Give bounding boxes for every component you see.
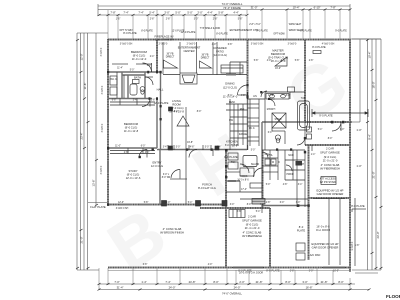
- svg-text:1'-4": 1'-4": [311, 154, 316, 156]
- svg-text:17'-4": 17'-4": [241, 189, 247, 191]
- svg-text:12'-0 PLATE: 12'-0 PLATE: [172, 30, 185, 33]
- svg-text:11'-0 x 12'-0: 11'-0 x 12'-0: [132, 57, 147, 61]
- svg-text:7'-4": 7'-4": [165, 280, 170, 284]
- svg-text:12'-0 CLG: 12'-0 CLG: [151, 164, 163, 168]
- svg-text:(12'-0 CLG): (12'-0 CLG): [223, 86, 237, 90]
- svg-text:2'-0": 2'-0": [239, 280, 244, 284]
- svg-text:2'-4": 2'-4": [147, 65, 152, 67]
- svg-text:DIRECT: DIRECT: [166, 57, 175, 59]
- svg-text:2'-8" x 5'-0": 2'-8" x 5'-0": [249, 24, 261, 26]
- svg-text:3'-0x5'-0: 3'-0x5'-0: [102, 85, 104, 94]
- svg-text:11'-0": 11'-0": [115, 146, 121, 148]
- svg-text:W/ BROOM FINISH: W/ BROOM FINISH: [160, 231, 184, 235]
- svg-text:3'-0": 3'-0": [194, 19, 199, 21]
- svg-text:2'-8": 2'-8": [290, 271, 295, 273]
- svg-text:3'-0": 3'-0": [309, 271, 314, 273]
- svg-text:PATIO: PATIO: [216, 50, 224, 54]
- svg-text:2'-8": 2'-8": [309, 60, 314, 62]
- svg-text:3'-0": 3'-0": [340, 129, 345, 131]
- svg-text:16'-0 x 8'-0: 16'-0 x 8'-0: [316, 225, 330, 229]
- svg-text:(9'-0 TRAY CLG): (9'-0 TRAY CLG): [268, 56, 288, 60]
- svg-text:24'-8": 24'-8": [189, 280, 196, 284]
- svg-text:8'-0": 8'-0": [328, 138, 333, 140]
- svg-text:UTIL: UTIL: [265, 154, 271, 156]
- svg-text:21'-4 x 21'-0: 21'-4 x 21'-0: [245, 226, 260, 230]
- svg-text:BEDROOM: BEDROOM: [131, 50, 147, 54]
- svg-text:ENTRY: ENTRY: [152, 161, 161, 165]
- svg-text:EQUIPPED W/ 1/2 HP: EQUIPPED W/ 1/2 HP: [317, 189, 344, 193]
- svg-text:3'-4": 3'-4": [217, 147, 222, 149]
- svg-text:1'-0": 1'-0": [356, 128, 361, 132]
- svg-text:4'-4": 4'-4": [207, 11, 212, 15]
- svg-text:BEDROOM: BEDROOM: [271, 52, 286, 56]
- svg-text:4'-0x5'-0 SH: 4'-0x5'-0 SH: [322, 44, 335, 46]
- svg-text:BEDROOM: BEDROOM: [124, 122, 139, 126]
- svg-text:5'-8": 5'-8": [144, 202, 149, 204]
- svg-text:OPT TV ABV: OPT TV ABV: [119, 29, 133, 32]
- svg-text:REF: REF: [240, 109, 245, 111]
- svg-text:8'-0" DR: 8'-0" DR: [162, 177, 171, 179]
- svg-text:4'-0": 4'-0": [208, 264, 213, 266]
- svg-text:24'-0": 24'-0": [169, 286, 176, 290]
- svg-text:12'-0": 12'-0": [80, 54, 84, 61]
- svg-text:ENTERTAINMENT CTR: ENTERTAINMENT CTR: [230, 28, 259, 32]
- svg-text:12'-0": 12'-0": [118, 202, 124, 204]
- svg-text:8'-0: 8'-0: [299, 225, 304, 229]
- svg-text:DINING: DINING: [225, 82, 234, 86]
- svg-text:21'-0 x 21'-0: 21'-0 x 21'-0: [323, 159, 338, 163]
- svg-text:DESK: DESK: [229, 102, 236, 104]
- svg-text:4'-0": 4'-0": [260, 204, 265, 206]
- svg-text:7'-8": 7'-8": [110, 11, 115, 15]
- svg-text:ROOM: ROOM: [172, 103, 181, 107]
- svg-text:6'-8": 6'-8": [112, 100, 117, 102]
- svg-text:WDW SEAT: WDW SEAT: [289, 23, 302, 26]
- svg-text:A/C PAD: A/C PAD: [310, 253, 321, 257]
- svg-text:(12'-0 CLG): (12'-0 CLG): [170, 106, 184, 110]
- svg-text:2'-4": 2'-4": [150, 56, 155, 58]
- svg-text:23'-0": 23'-0": [376, 232, 380, 239]
- svg-text:OPT WDW: OPT WDW: [273, 34, 285, 36]
- svg-text:4'-0": 4'-0": [212, 44, 217, 46]
- svg-text:31'-4": 31'-4": [117, 286, 124, 290]
- svg-text:(9'-0 CLG): (9'-0 CLG): [324, 155, 337, 159]
- svg-text:10'-4": 10'-4": [293, 6, 300, 10]
- svg-text:ISLAND: ISLAND: [251, 163, 260, 166]
- svg-text:STUDY: STUDY: [128, 169, 137, 173]
- svg-text:9'-0x8'-0: 9'-0x8'-0: [352, 241, 354, 250]
- svg-text:3'-0": 3'-0": [296, 202, 301, 204]
- svg-text:11'-0 x 11'-8: 11'-0 x 11'-8: [124, 129, 139, 133]
- svg-text:1'-0": 1'-0": [356, 164, 361, 168]
- svg-text:(9'-0 CLG): (9'-0 CLG): [133, 54, 146, 58]
- svg-text:8'-0": 8'-0": [174, 111, 179, 113]
- svg-text:6'-8": 6'-8": [228, 44, 233, 46]
- svg-text:12'-0 PLATE: 12'-0 PLATE: [154, 101, 169, 105]
- svg-text:7'-0": 7'-0": [114, 280, 119, 284]
- svg-text:3'-8": 3'-8": [151, 100, 156, 102]
- svg-text:5'-0": 5'-0": [205, 147, 210, 149]
- svg-text:6'-0": 6'-0": [280, 202, 285, 204]
- svg-text:6'-0": 6'-0": [166, 202, 171, 204]
- svg-text:5'-8": 5'-8": [254, 60, 259, 62]
- svg-text:5'-4": 5'-4": [318, 129, 323, 131]
- svg-text:12'-8": 12'-8": [268, 95, 274, 97]
- svg-text:23'-4": 23'-4": [80, 133, 84, 140]
- svg-text:4" CONC SLAB: 4" CONC SLAB: [321, 163, 340, 167]
- svg-text:8'-0 PLATE: 8'-0 PLATE: [312, 45, 326, 49]
- svg-text:(12'-0 CLG): (12'-0 CLG): [213, 53, 227, 57]
- svg-text:3'-0" x: 3'-0" x: [163, 174, 170, 176]
- svg-text:W/ PD STAIR: W/ PD STAIR: [320, 180, 336, 184]
- svg-text:1'-6": 1'-6": [116, 19, 121, 21]
- svg-text:6'-8": 6'-8": [281, 60, 286, 62]
- svg-text:4'-0": 4'-0": [267, 60, 272, 62]
- svg-text:74'-0" FRAME: 74'-0" FRAME: [223, 6, 241, 10]
- svg-text:3'-0x5'-0 SH: 3'-0x5'-0 SH: [251, 44, 264, 46]
- svg-text:36" FB: 36" FB: [202, 55, 209, 57]
- svg-text:5'-0": 5'-0": [266, 184, 271, 186]
- svg-text:8'-0 PLATE: 8'-0 PLATE: [216, 33, 228, 36]
- svg-text:3'-0x5'-0: 3'-0x5'-0: [288, 44, 297, 46]
- svg-text:GAR DOOR OPENER: GAR DOOR OPENER: [312, 246, 339, 250]
- svg-text:SHWR: SHWR: [274, 119, 281, 121]
- svg-text:W.I.C.: W.I.C.: [110, 77, 118, 81]
- svg-text:12'-0 x 13'-6: 12'-0 x 13'-6: [126, 176, 141, 180]
- svg-text:24'-0": 24'-0": [234, 286, 241, 290]
- svg-text:5'-4": 5'-4": [228, 95, 233, 97]
- svg-text:RANGE: RANGE: [239, 133, 248, 136]
- svg-text:4'-8": 4'-8": [241, 95, 246, 97]
- svg-text:16'-0": 16'-0": [333, 271, 339, 273]
- svg-text:16'-0": 16'-0": [372, 82, 376, 89]
- svg-text:7'-4": 7'-4": [138, 11, 143, 15]
- svg-text:PAN: PAN: [231, 161, 236, 164]
- svg-text:4" CONC SLAB: 4" CONC SLAB: [243, 231, 262, 235]
- svg-text:6'-0": 6'-0": [141, 146, 146, 148]
- svg-text:1'-8": 1'-8": [355, 245, 360, 247]
- svg-text:9'-0 PLATE: 9'-0 PLATE: [256, 30, 268, 33]
- svg-text:O.H. DOOR: O.H. DOOR: [316, 228, 330, 232]
- svg-text:NOOK: NOOK: [241, 176, 248, 178]
- svg-text:9'-0 PLATE: 9'-0 PLATE: [319, 114, 333, 118]
- svg-text:16'-8": 16'-8": [306, 286, 313, 290]
- svg-text:2'-8": 2'-8": [213, 19, 218, 21]
- svg-text:1'-4": 1'-4": [141, 280, 146, 284]
- svg-text:MASTER: MASTER: [272, 49, 283, 53]
- svg-text:6'-10": 6'-10": [314, 6, 321, 10]
- svg-text:2'-8": 2'-8": [266, 202, 271, 204]
- svg-text:TUB: TUB: [301, 98, 306, 100]
- svg-text:5'-4": 5'-4": [149, 11, 154, 15]
- svg-text:10'-0 x 8'-0: 10'-0 x 8'-0: [237, 180, 249, 182]
- svg-text:FLAT PLATE: FLAT PLATE: [90, 205, 106, 209]
- svg-text:21'-0": 21'-0": [372, 172, 376, 179]
- svg-text:8'-0": 8'-0": [247, 204, 252, 206]
- svg-text:9'-4": 9'-4": [368, 134, 372, 139]
- svg-text:3'-4": 3'-4": [298, 184, 303, 186]
- svg-text:36" FB: 36" FB: [167, 54, 174, 56]
- svg-text:ATT ACCESS: ATT ACCESS: [320, 177, 337, 181]
- svg-text:(9'-0 CLG): (9'-0 CLG): [127, 173, 140, 177]
- svg-text:21'-8": 21'-8": [256, 280, 263, 284]
- svg-text:BATH: BATH: [134, 76, 141, 80]
- svg-text:11'-4": 11'-4": [117, 68, 123, 70]
- svg-text:3'-0x5'-0 SH: 3'-0x5'-0 SH: [120, 44, 133, 46]
- svg-text:7'-4": 7'-4": [123, 11, 128, 15]
- svg-text:DIRECT: DIRECT: [201, 58, 210, 60]
- svg-text:8'-0 PLATE: 8'-0 PLATE: [351, 204, 365, 208]
- svg-text:16'-0 x 8'-0 O.H. DOOR: 16'-0 x 8'-0 O.H. DOOR: [239, 273, 263, 275]
- svg-text:8'-0 FLAT CLG: 8'-0 FLAT CLG: [198, 186, 216, 190]
- svg-text:5'-8": 5'-8": [295, 60, 300, 62]
- svg-text:8'-0 PLATE: 8'-0 PLATE: [141, 30, 153, 33]
- svg-text:8'-0": 8'-0": [213, 280, 218, 284]
- svg-text:9'-0 PLATE: 9'-0 PLATE: [335, 30, 347, 33]
- svg-text:(9'-0 CLG): (9'-0 CLG): [125, 126, 138, 130]
- svg-text:5'-0": 5'-0": [251, 150, 256, 152]
- svg-text:2 CAR: 2 CAR: [248, 215, 256, 219]
- svg-text:21'-8": 21'-8": [321, 280, 328, 284]
- svg-text:LIVING: LIVING: [172, 99, 181, 103]
- svg-text:11'-8": 11'-8": [83, 83, 87, 90]
- svg-text:21'-0": 21'-0": [80, 237, 84, 244]
- svg-text:W/ FIBERMESH: W/ FIBERMESH: [320, 167, 340, 171]
- svg-text:8'-0": 8'-0": [197, 111, 202, 113]
- svg-text:3'-0": 3'-0": [230, 204, 235, 206]
- svg-text:5'-8": 5'-8": [238, 19, 243, 21]
- svg-text:PORCH: PORCH: [202, 183, 212, 187]
- svg-text:ENTERTAINMENT: ENTERTAINMENT: [178, 46, 201, 50]
- svg-text:CENTER: CENTER: [183, 49, 194, 53]
- svg-text:GAS STARTER: GAS STARTER: [155, 38, 174, 42]
- svg-text:3'-0x5'-0: 3'-0x5'-0: [102, 123, 104, 132]
- svg-text:5'-0": 5'-0": [130, 70, 135, 72]
- svg-text:5'-0": 5'-0": [187, 11, 192, 15]
- svg-text:19'-8": 19'-8": [187, 142, 193, 144]
- svg-text:4'-8": 4'-8": [190, 147, 195, 149]
- svg-text:3'-0": 3'-0": [164, 11, 169, 15]
- svg-text:PLATE: PLATE: [297, 229, 306, 233]
- svg-text:MUD: MUD: [288, 155, 294, 157]
- svg-text:GAR DOOR OPENER: GAR DOOR OPENER: [317, 192, 344, 196]
- svg-text:3'-4": 3'-4": [163, 147, 168, 149]
- svg-text:3'-0x5'-0: 3'-0x5'-0: [101, 47, 103, 56]
- svg-text:2'-0x5'-0: 2'-0x5'-0: [159, 44, 168, 46]
- svg-text:5'-4": 5'-4": [256, 211, 261, 213]
- svg-text:SPLIT GARAGE: SPLIT GARAGE: [320, 151, 340, 155]
- svg-text:2'-8": 2'-8": [150, 19, 155, 21]
- svg-text:31'-0": 31'-0": [251, 6, 258, 10]
- svg-text:5'-0": 5'-0": [175, 11, 180, 15]
- svg-text:8'-0 x 5'-0 ISL: 8'-0 x 5'-0 ISL: [225, 145, 240, 147]
- svg-text:6'-0": 6'-0": [268, 132, 273, 134]
- svg-text:3'-0x5'-0 SH: 3'-0x5'-0 SH: [116, 208, 129, 210]
- svg-text:EQUIPPED W/ 1/2 HP: EQUIPPED W/ 1/2 HP: [312, 242, 339, 246]
- svg-text:8'-0 PLATE: 8'-0 PLATE: [224, 155, 238, 159]
- svg-text:5'-0": 5'-0": [176, 147, 181, 149]
- svg-text:(9'-0 CLG): (9'-0 CLG): [246, 223, 259, 227]
- svg-text:3'-0": 3'-0": [197, 11, 202, 15]
- svg-text:LIN: LIN: [253, 96, 257, 98]
- svg-text:PWDR: PWDR: [286, 174, 293, 176]
- svg-text:13'-6": 13'-6": [92, 180, 96, 187]
- svg-text:2'-0x5'-0: 2'-0x5'-0: [187, 44, 196, 46]
- svg-text:HALL: HALL: [157, 88, 164, 92]
- svg-text:74'-0" OVERALL: 74'-0" OVERALL: [222, 291, 242, 295]
- svg-text:3'-0": 3'-0": [302, 280, 307, 284]
- svg-text:TYP SHELF & ROD: TYP SHELF & ROD: [200, 28, 221, 30]
- svg-text:2'-8": 2'-8": [166, 19, 171, 21]
- svg-text:2 CAR: 2 CAR: [326, 147, 334, 151]
- svg-text:8'-0": 8'-0": [285, 280, 290, 284]
- svg-text:8'-0": 8'-0": [338, 280, 343, 284]
- svg-text:KITCHEN: KITCHEN: [226, 140, 238, 144]
- svg-text:8'-0 PLATE: 8'-0 PLATE: [300, 30, 312, 33]
- svg-text:5'-8": 5'-8": [218, 11, 223, 15]
- svg-text:W.I.C.: W.I.C.: [249, 128, 256, 130]
- svg-text:W/ FIBERMESH: W/ FIBERMESH: [242, 234, 262, 238]
- svg-text:6'-8": 6'-8": [143, 264, 148, 266]
- svg-text:7'-8": 7'-8": [330, 6, 335, 10]
- svg-text:16'-0": 16'-0": [275, 68, 281, 70]
- svg-text:3'-0x5'-0: 3'-0x5'-0: [101, 165, 103, 174]
- svg-text:FLOOR: FLOOR: [386, 294, 400, 299]
- svg-text:M.BATH: M.BATH: [267, 108, 276, 111]
- svg-text:10'-4": 10'-4": [368, 52, 372, 59]
- svg-text:SPLIT GARAGE: SPLIT GARAGE: [242, 219, 262, 223]
- svg-text:COVERED: COVERED: [213, 46, 226, 50]
- svg-text:4'-8": 4'-8": [283, 184, 288, 186]
- svg-text:4'-4": 4'-4": [233, 11, 238, 15]
- svg-text:5'-4": 5'-4": [188, 202, 193, 204]
- svg-text:4" CONC SLAB: 4" CONC SLAB: [163, 227, 182, 231]
